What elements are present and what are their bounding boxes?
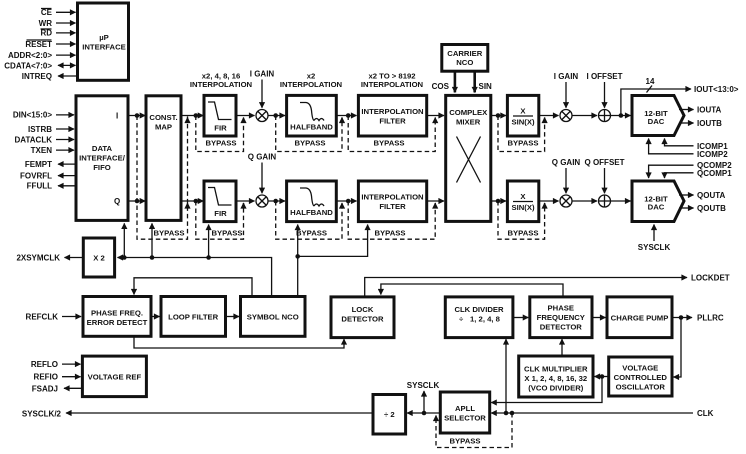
I GAIN label and arrow <box>250 70 275 108</box>
bypass dashed X/SIN(X) I <box>498 116 545 152</box>
wire pfed bottom to lock detector <box>134 336 344 348</box>
pin FFULL output <box>27 182 76 191</box>
svg-text:IOUT<13:0>: IOUT<13:0> <box>694 85 739 94</box>
bypass dashed FIR I <box>196 116 244 152</box>
wire I line fifo to const map <box>128 115 145 117</box>
svg-text:BYPASS: BYPASS <box>449 437 480 446</box>
svg-text:X: X <box>520 107 526 116</box>
wire mult I to halfband <box>268 115 285 117</box>
svg-text:INTERPOLATION: INTERPOLATION <box>280 80 343 89</box>
loop filter block <box>161 297 226 337</box>
svg-text:DETECTOR: DETECTOR <box>540 323 583 332</box>
wire FIR Q to mult <box>236 200 255 202</box>
pin RESET <box>25 40 75 49</box>
svg-text:OSCILLATOR: OSCILLATOR <box>616 383 666 392</box>
adder I offset <box>599 110 611 122</box>
svg-text:FILTER: FILTER <box>379 117 406 126</box>
wire Q line fifo to const map <box>128 200 145 202</box>
wire clock branch to interp Q <box>298 225 368 257</box>
HALFBAND I block <box>287 95 337 136</box>
svg-text:X: X <box>520 192 526 201</box>
wire mult I to adder <box>572 115 597 117</box>
INTERPOLATION FILTER I block <box>358 95 426 136</box>
wire pfed to loop filter <box>151 316 160 318</box>
svg-text:FREQUENCY: FREQUENCY <box>537 313 585 322</box>
svg-text:FIR: FIR <box>214 209 227 218</box>
pin DIN<15:0> <box>13 111 74 120</box>
wire loop filter to symbol nco <box>226 316 240 318</box>
svg-text:I OFFSET: I OFFSET <box>587 72 623 81</box>
svg-text:X 1, 2, 4, 8, 16, 32: X 1, 2, 4, 8, 16, 32 <box>524 374 587 383</box>
bypass dashed X/SIN(X) Q <box>498 201 545 239</box>
wire apll to div2 <box>407 412 440 414</box>
lock detector block <box>331 297 394 338</box>
svg-text:CLK: CLK <box>697 409 714 418</box>
wire xsin Q to mult <box>539 200 559 202</box>
wire SYSCLK to DAC <box>638 225 671 253</box>
pin IOUTA <box>679 106 722 115</box>
wire mult Q to adder <box>572 200 597 202</box>
wire CLK input <box>491 409 713 418</box>
svg-text:µP: µP <box>99 33 109 42</box>
svg-text:I GAIN: I GAIN <box>250 70 275 79</box>
wire adder Q to DAC <box>611 200 631 202</box>
svg-text:I: I <box>116 111 118 120</box>
data interface fifo block U2 <box>76 96 128 221</box>
svg-text:Q: Q <box>114 197 120 206</box>
svg-text:14: 14 <box>646 77 655 86</box>
FIR Q block <box>204 181 236 222</box>
divide by 2 block <box>373 395 406 435</box>
svg-text:RD: RD <box>40 29 52 38</box>
svg-text:PLLRC: PLLRC <box>697 314 724 323</box>
wire charge pump down to VCO <box>674 318 682 378</box>
wire interp Q to mixer <box>427 200 444 202</box>
svg-text:÷ 2: ÷ 2 <box>384 410 395 419</box>
svg-text:CONTROLLED: CONTROLLED <box>614 373 668 382</box>
wire pfd to lock detector <box>381 284 563 297</box>
wire clk multiplier to pfd <box>561 339 563 356</box>
label x2 to 8192 interpolation <box>361 71 424 89</box>
svg-text:INTREQ: INTREQ <box>22 72 52 81</box>
pin QOUTA <box>679 191 726 200</box>
svg-text:BYPASS: BYPASS <box>374 229 405 238</box>
apll selector block <box>440 392 489 433</box>
pin QCOMP1 <box>665 169 733 178</box>
svg-text:FIFO: FIFO <box>93 163 111 172</box>
X2 block <box>83 238 114 277</box>
svg-text:INTERFACE: INTERFACE <box>82 43 126 52</box>
svg-text:IOUTB: IOUTB <box>697 119 722 128</box>
bypass dashed halfband I <box>276 116 342 152</box>
svg-text:CLK MULTIPLIER: CLK MULTIPLIER <box>524 365 588 374</box>
svg-text:BYPASS: BYPASS <box>153 229 184 238</box>
svg-text:DATA: DATA <box>92 144 113 153</box>
svg-text:ICOMP2: ICOMP2 <box>697 150 728 159</box>
svg-text:SYMBOL NCO: SYMBOL NCO <box>247 313 299 322</box>
svg-text:1, 2, 4, 8: 1, 2, 4, 8 <box>470 315 501 324</box>
svg-text:SIN(X): SIN(X) <box>511 118 535 127</box>
svg-text:WR: WR <box>39 19 53 28</box>
wire IOUT bus with 14 <box>619 77 739 118</box>
svg-text:SYSCLK: SYSCLK <box>407 381 440 390</box>
svg-text:PHASE: PHASE <box>548 304 575 313</box>
svg-text:DETECTOR: DETECTOR <box>341 315 384 324</box>
svg-text:NCO: NCO <box>456 58 473 67</box>
clk multiplier block <box>519 356 593 397</box>
multiplier Q gain 2 <box>560 195 572 207</box>
pin CDATA<7:0> bidirectional <box>4 61 75 70</box>
svg-text:COMPLEX: COMPLEX <box>449 108 488 117</box>
wire halfband I to interp filter <box>336 115 356 117</box>
svg-text:SYSCLK: SYSCLK <box>638 243 671 252</box>
pin FOVRFL output <box>20 171 76 180</box>
bypass dashed interp I <box>348 116 435 152</box>
svg-text:FILTER: FILTER <box>379 202 406 211</box>
svg-text:2XSYMCLK: 2XSYMCLK <box>16 254 60 263</box>
svg-text:HALFBAND: HALFBAND <box>290 208 333 217</box>
pin RD <box>40 29 75 38</box>
svg-text:x2, 4, 8, 16: x2, 4, 8, 16 <box>202 71 240 80</box>
svg-text:QOUTA: QOUTA <box>697 191 726 200</box>
wire adder I to DAC <box>611 115 631 117</box>
wire interp I to mixer <box>427 115 444 117</box>
svg-text:INTERFACE/: INTERFACE/ <box>79 154 126 163</box>
svg-text:CE: CE <box>41 8 53 17</box>
adder Q offset <box>599 195 611 207</box>
I OFFSET label and arrow <box>587 72 623 108</box>
multiplier I gain 1 <box>256 110 268 122</box>
svg-text:LOCKDET: LOCKDET <box>691 274 730 283</box>
svg-text:PHASE FREQ.: PHASE FREQ. <box>91 309 143 318</box>
FIR I block <box>204 95 236 136</box>
pin QCOMP2 <box>649 161 733 178</box>
junction dots on I line <box>135 113 140 118</box>
svg-text:SELECTOR: SELECTOR <box>444 414 486 423</box>
pin INTREQ output <box>22 72 78 81</box>
pin REFIO <box>34 373 81 382</box>
wire xsin I to mult <box>539 115 559 117</box>
svg-text:I GAIN: I GAIN <box>554 72 579 81</box>
pin ICOMP1 <box>665 139 729 151</box>
label x2 interpolation <box>280 71 343 89</box>
pin ISTRB <box>28 125 74 134</box>
junction dots on Q line <box>135 199 140 204</box>
svg-text:FIR: FIR <box>214 123 227 132</box>
X/SIN(X) I block <box>507 95 538 136</box>
wire halfband Q to interp filter <box>336 200 356 202</box>
voltage ref block <box>82 356 146 397</box>
svg-text:INTERPOLATION: INTERPOLATION <box>361 80 424 89</box>
svg-text:Q GAIN: Q GAIN <box>552 158 581 167</box>
pin SYSCLK/2 <box>22 410 373 419</box>
svg-text:CHARGE PUMP: CHARGE PUMP <box>611 314 669 323</box>
HALFBAND Q block <box>287 181 337 222</box>
Q GAIN 2 label and arrow <box>552 158 581 193</box>
wire vco to clk multiplier <box>595 376 609 378</box>
pin TXEN <box>31 146 74 155</box>
wire I line const map to FIR <box>181 115 203 117</box>
svg-text:HALFBAND: HALFBAND <box>290 123 333 132</box>
svg-text:APLL: APLL <box>455 404 475 413</box>
wire clock line A to X2 <box>118 258 272 297</box>
wire mult Q to halfband <box>268 200 285 202</box>
pin 2XSYMCLK <box>16 254 83 263</box>
svg-text:BYPASS: BYPASS <box>373 138 404 147</box>
Q OFFSET label and arrow <box>585 158 625 193</box>
svg-text:LOCK: LOCK <box>352 305 374 314</box>
junction dots before X/SIN(X) <box>496 113 501 118</box>
svg-text:CLK DIVIDER: CLK DIVIDER <box>454 305 504 314</box>
svg-text:DAC: DAC <box>648 117 665 126</box>
bypass dashed halfband Q <box>276 201 342 239</box>
label x2,4,8,16 interpolation <box>190 71 253 89</box>
pin CE <box>41 8 76 17</box>
wire nco feedback to pfed top <box>134 278 252 297</box>
wire COS <box>432 71 455 92</box>
wire SIN <box>475 71 492 92</box>
pin REFLO <box>31 360 81 369</box>
multiplier Q gain 1 <box>256 195 268 207</box>
wire charge pump to PLLRC <box>672 314 724 323</box>
12-bit DAC Q block <box>632 181 684 222</box>
svg-text:CDATA<7:0>: CDATA<7:0> <box>4 61 52 70</box>
svg-text:FSADJ: FSADJ <box>32 384 58 393</box>
wire mixer I out <box>491 115 506 117</box>
svg-text:SYSCLK/2: SYSCLK/2 <box>22 410 62 419</box>
svg-text:BYPASS: BYPASS <box>507 229 538 238</box>
svg-text:Q GAIN: Q GAIN <box>248 153 277 162</box>
carrier NCO block <box>442 45 488 72</box>
svg-text:REFIO: REFIO <box>34 373 58 382</box>
svg-text:COS: COS <box>432 82 450 91</box>
svg-text:x2: x2 <box>307 71 316 80</box>
wire vco junction down to apll selector <box>491 377 602 403</box>
svg-text:x2 TO > 8192: x2 TO > 8192 <box>368 71 415 80</box>
wire pfd to charge pump <box>592 317 606 319</box>
bypass dashed interp Q <box>348 201 435 239</box>
bypass dashed FIR Q <box>196 201 244 239</box>
bypass dashed apll <box>436 413 512 448</box>
svg-text:SIN: SIN <box>479 82 493 91</box>
wire clock vertical halfband Q to symbol NCO <box>297 225 299 296</box>
svg-text:ADDR<2:0>: ADDR<2:0> <box>8 51 52 60</box>
wire mixer Q out <box>491 200 506 202</box>
svg-text:BYPASS: BYPASS <box>205 138 236 147</box>
pin FSADJ <box>32 384 83 393</box>
svg-text:(VCO DIVIDER): (VCO DIVIDER) <box>528 384 584 393</box>
svg-text:RESET: RESET <box>25 40 52 49</box>
svg-text:ISTRB: ISTRB <box>28 125 52 134</box>
wire FIR I to mult <box>236 115 255 117</box>
12-bit DAC I block <box>632 96 684 136</box>
svg-text:DATACLK: DATACLK <box>15 135 53 144</box>
svg-text:VOLTAGE REF: VOLTAGE REF <box>88 373 142 382</box>
svg-text:Q OFFSET: Q OFFSET <box>585 158 625 167</box>
svg-text:QCOMP1: QCOMP1 <box>697 169 732 178</box>
INTERPOLATION FILTER Q block <box>358 181 426 222</box>
pin FEMPT output <box>25 160 76 169</box>
svg-text:TXEN: TXEN <box>31 146 53 155</box>
pin REFCLK <box>26 313 81 322</box>
svg-text:VOLTAGE: VOLTAGE <box>622 364 658 373</box>
svg-text:FEMPT: FEMPT <box>25 160 52 169</box>
I GAIN 2 label and arrow <box>554 72 579 108</box>
SYSCLK label arrow <box>407 381 440 413</box>
multiplier I gain 2 <box>560 110 572 122</box>
svg-text:FOVRFL: FOVRFL <box>20 171 52 180</box>
svg-text:SIN(X): SIN(X) <box>511 203 535 212</box>
wire lockdet output <box>365 274 730 297</box>
svg-text:BYPASS: BYPASS <box>296 229 327 238</box>
pin QOUTB <box>679 204 726 213</box>
VCO block <box>609 357 672 396</box>
wire clk line up to clk divider <box>505 339 507 413</box>
const map block U3 <box>146 96 181 221</box>
clk divider block <box>445 297 513 338</box>
pin ADDR<2:0> <box>8 51 76 60</box>
svg-text:X 2: X 2 <box>93 254 105 263</box>
pin IOUTB <box>679 119 722 128</box>
svg-text:CARRIER: CARRIER <box>447 49 482 58</box>
up interface block U1 <box>78 3 129 80</box>
svg-text:MIXER: MIXER <box>456 118 481 127</box>
svg-text:DIN<15:0>: DIN<15:0> <box>13 111 52 120</box>
svg-text:INTERPOLATION: INTERPOLATION <box>361 193 424 202</box>
wire clock up to FIR Q <box>208 225 210 258</box>
svg-text:DAC: DAC <box>648 203 665 212</box>
svg-text:FFULL: FFULL <box>27 182 52 191</box>
svg-text:BYPASS: BYPASS <box>507 138 538 147</box>
pin DATACLK <box>15 135 74 144</box>
pin WR <box>39 19 76 28</box>
svg-text:REFCLK: REFCLK <box>26 313 59 322</box>
pin ICOMP2 <box>649 139 729 159</box>
svg-text:BYPASS: BYPASS <box>211 229 242 238</box>
svg-text:CONST.: CONST. <box>149 113 177 122</box>
charge pump block <box>607 297 672 338</box>
svg-text:REFLO: REFLO <box>31 360 58 369</box>
phase freq error detect block <box>83 297 151 337</box>
svg-text:LOOP FILTER: LOOP FILTER <box>168 313 219 322</box>
svg-text:INTERPOLATION: INTERPOLATION <box>361 107 424 116</box>
svg-text:ERROR DETECT: ERROR DETECT <box>87 318 148 327</box>
wire Q line const map to FIR <box>181 200 203 202</box>
phase frequency detector block <box>530 297 592 338</box>
symbol NCO block <box>241 297 306 337</box>
complex mixer block <box>446 95 491 221</box>
wire clk divider to pfd <box>513 317 528 319</box>
svg-text:QOUTB: QOUTB <box>697 204 726 213</box>
X/SIN(X) Q block <box>507 181 538 222</box>
wire clock up to const map <box>151 223 153 257</box>
svg-text:INTERPOLATION: INTERPOLATION <box>190 80 253 89</box>
bypass dashed const map <box>137 116 188 240</box>
Q GAIN label and arrow <box>248 153 277 194</box>
svg-text:IOUTA: IOUTA <box>697 106 722 115</box>
svg-text:BYPASS: BYPASS <box>294 138 325 147</box>
svg-text:MAP: MAP <box>155 123 172 132</box>
wire clock up to fifo <box>123 223 125 257</box>
